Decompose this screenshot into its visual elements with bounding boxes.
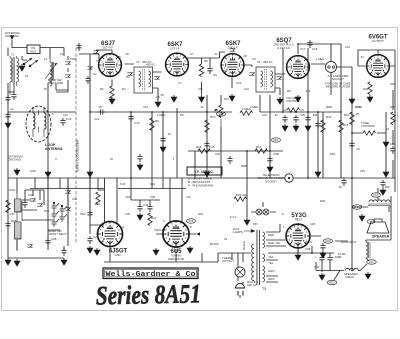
res right edge R25 — [391, 112, 395, 125]
tiny value labels 2 — [10, 45, 395, 256]
res volume R12 — [287, 108, 300, 112]
svg-text:C9: C9 — [213, 73, 217, 77]
svg-text:2: 2 — [381, 73, 383, 76]
svg-text:R18: R18 — [11, 219, 17, 223]
svg-text:P: P — [190, 225, 192, 229]
wire: 6SJ7 plate to T2 — [112, 64, 134, 86]
svg-text:.01: .01 — [385, 127, 389, 131]
svg-text:C34: C34 — [72, 197, 77, 201]
wire: chassis bus — [8, 177, 395, 179]
svg-text:C1: C1 — [60, 52, 64, 56]
gnd R6 — [199, 95, 205, 102]
svg-text:C10: C10 — [236, 81, 242, 85]
tube 6V6GT U5 — [366, 54, 390, 78]
svg-text:.01: .01 — [360, 55, 364, 59]
oval tag red — [327, 280, 337, 284]
cap C44 — [320, 243, 325, 251]
svg-text:C36: C36 — [125, 212, 130, 216]
svg-text:16 MF: 16 MF — [338, 252, 346, 256]
svg-text:5: 5 — [369, 61, 371, 64]
svg-text:2: 2 — [113, 72, 115, 75]
tube 6SQ7 U4 — [286, 55, 310, 79]
svg-text:R22: R22 — [95, 202, 100, 206]
svg-text:5: 5 — [224, 60, 226, 63]
AF amplifier socket — [325, 62, 350, 89]
osc trimmer stack A — [65, 190, 70, 193]
cap C15 — [204, 141, 209, 149]
svg-text:& 1ST A.F.: & 1ST A.F. — [277, 46, 291, 50]
wire: osc bottom links — [8, 190, 104, 258]
wire: heater run bottom — [104, 247, 218, 262]
svg-text:C40: C40 — [314, 265, 320, 269]
svg-text:47K: 47K — [186, 195, 191, 199]
cap right edge C50 — [390, 146, 395, 154]
oscillator coil T6 — [9, 188, 22, 251]
oval tag 6U5 — [187, 219, 196, 223]
wire: 6SK7 plate bus to 6SK7(2) — [187, 52, 226, 58]
svg-text:5: 5 — [166, 229, 168, 232]
svg-text:OSC.: OSC. — [114, 253, 121, 257]
svg-text:7: 7 — [179, 223, 181, 226]
svg-text:7: 7 — [301, 58, 303, 61]
svg-text:RED: RED — [329, 282, 334, 285]
wire: 6SK7(2) plate to T4 — [232, 65, 252, 88]
arrow 6U5 — [196, 232, 200, 235]
oval tag pin — [324, 239, 333, 243]
IF transformer T3 — [127, 60, 159, 93]
svg-text:C2: C2 — [93, 72, 97, 76]
svg-text:+: + — [315, 255, 317, 259]
tube 6SJ7 U1 — [98, 53, 122, 77]
gnd osc coil — [14, 259, 20, 266]
wire: long vertical feeds — [131, 48, 386, 271]
svg-text:OSC.: OSC. — [9, 188, 16, 192]
svg-text:RED-YEL: RED-YEL — [268, 241, 281, 245]
wire: grid line 6SJ7 — [79, 44, 99, 178]
wire: 6V6GT grid-screen box — [358, 50, 395, 192]
svg-text:250: 250 — [390, 82, 395, 86]
svg-text:4: 4 — [369, 68, 371, 71]
padder C30 — [27, 244, 32, 247]
band switch rear — [52, 202, 68, 227]
svg-text:INDICATOR: INDICATOR — [168, 257, 184, 261]
wire: antenna lead — [12, 40, 64, 59]
svg-text:.01: .01 — [274, 113, 278, 117]
electrolytics — [319, 255, 324, 263]
svg-text:1 MEG: 1 MEG — [157, 113, 165, 117]
svg-text:2: 2 — [301, 244, 303, 247]
cap C26 — [5, 221, 10, 229]
gnd 6SK7 — [155, 100, 161, 107]
osc trimmers — [30, 198, 35, 201]
svg-text:500K: 500K — [326, 105, 332, 109]
svg-text:R3: R3 — [126, 75, 130, 79]
res R11 — [240, 111, 253, 115]
svg-text:6: 6 — [52, 112, 54, 116]
svg-text:4: 4 — [100, 237, 102, 240]
tone control — [361, 121, 389, 147]
tube 6U5 U7 — [162, 220, 189, 247]
svg-text:6: 6 — [173, 55, 175, 58]
svg-text:C38: C38 — [310, 222, 315, 226]
svg-text:P - PHONOGRAPH: P - PHONOGRAPH — [188, 184, 213, 188]
svg-text:.006: .006 — [312, 113, 318, 117]
svg-text:T4: T4 — [257, 60, 261, 64]
svg-text:1 MEG: 1 MEG — [316, 57, 324, 61]
gnd 6SK7(2) — [229, 94, 235, 101]
svg-text:6: 6 — [228, 56, 230, 59]
wire: T1 primary drops — [8, 48, 14, 179]
wire: T4 to 6SQ7 — [275, 74, 285, 95]
svg-text:RED: RED — [268, 233, 274, 237]
svg-text:R21: R21 — [151, 216, 157, 220]
svg-text:1: 1 — [385, 68, 387, 71]
cap C27 + gnd — [61, 248, 66, 256]
svg-text:.05: .05 — [222, 69, 226, 73]
svg-text:2: 2 — [235, 72, 237, 75]
svg-text:8: 8 — [282, 212, 284, 216]
svg-text:R24: R24 — [363, 87, 368, 91]
tube 6SK7 U3 — [221, 53, 245, 77]
res R15 — [339, 120, 343, 133]
wire: osc tube feeds — [105, 178, 183, 223]
svg-text:C13: C13 — [134, 121, 140, 125]
switch S1a — [23, 58, 38, 67]
cap C4 input — [5, 95, 10, 103]
svg-text:T1: T1 — [11, 53, 15, 57]
svg-text:C2: C2 — [10, 107, 14, 111]
svg-text:C24: C24 — [262, 113, 267, 117]
wells-gardner box — [103, 268, 198, 279]
svg-text:PAD: PAD — [44, 209, 49, 213]
svg-text:8: 8 — [305, 62, 307, 65]
cap C21 — [349, 141, 354, 149]
svg-text:7: 7 — [113, 56, 115, 59]
svg-text:R6: R6 — [204, 59, 208, 63]
electrolytic C29 — [87, 236, 92, 244]
wire: speaker leads — [311, 188, 391, 241]
svg-text:HUM NEUT.: HUM NEUT. — [341, 240, 357, 244]
svg-text:R10: R10 — [210, 115, 216, 119]
oval tag pin2 — [367, 260, 377, 264]
svg-text:5: 5 — [168, 60, 170, 63]
svg-text:5: 5 — [289, 231, 291, 234]
svg-text:1ST R.F.: 1ST R.F. — [102, 46, 113, 50]
res R20 — [234, 197, 247, 201]
svg-text:6U5: 6U5 — [189, 220, 194, 223]
cap C22 — [267, 156, 272, 164]
wire: bottom b+ bus — [268, 246, 367, 280]
svg-text:ANT.: ANT. — [30, 49, 36, 53]
wire: avc bus — [188, 151, 283, 218]
wire: 6SQ7 plate to AF socket — [311, 44, 331, 95]
svg-text:T3: T3 — [136, 60, 140, 64]
svg-text:C50: C50 — [390, 142, 395, 146]
svg-text:LAMPS: LAMPS — [233, 230, 243, 234]
speaker field winding — [366, 242, 370, 258]
svg-text:7: 7 — [235, 56, 237, 59]
gang condenser dashed line — [75, 48, 77, 243]
svg-text:.02: .02 — [338, 185, 342, 189]
svg-text:.05: .05 — [160, 93, 164, 97]
avc resistor R17 — [255, 149, 268, 153]
wire: left mid horizontals — [8, 90, 68, 104]
res R18 — [6, 200, 10, 213]
svg-text:8: 8 — [240, 60, 242, 63]
wire: interstage r-c — [202, 58, 211, 95]
osc res R22 — [96, 192, 100, 205]
svg-text:500: 500 — [385, 185, 390, 189]
svg-text:OSC: OSC — [80, 212, 86, 216]
svg-text:R8: R8 — [287, 89, 291, 93]
wire: left osc verticals — [8, 178, 98, 258]
wire: AF socket to 6V6GT grid — [337, 67, 353, 95]
gnd 6U5 — [153, 248, 159, 255]
svg-text:R1: R1 — [122, 87, 126, 91]
svg-text:R16: R16 — [196, 145, 202, 149]
svg-text:3: 3 — [374, 73, 376, 76]
svg-text:GND: GND — [30, 169, 36, 173]
svg-text:RECT. SHD: RECT. SHD — [48, 81, 63, 85]
svg-text:7: 7 — [180, 55, 182, 58]
svg-text:G: G — [122, 225, 124, 229]
svg-text:2: 2 — [113, 242, 115, 245]
svg-text:VC: VC — [369, 222, 373, 224]
interstage resistor R6 — [199, 64, 203, 77]
svg-text:R13: R13 — [326, 115, 332, 119]
svg-text:BLACK: BLACK — [242, 240, 246, 250]
cap C52 — [380, 180, 385, 188]
cap C28 — [45, 238, 50, 246]
svg-text:T5: T5 — [262, 287, 266, 291]
svg-text:FIELD: FIELD — [346, 275, 354, 279]
svg-text:R17: R17 — [256, 145, 262, 149]
svg-text:C10: C10 — [244, 87, 249, 91]
svg-text:BLK: BLK — [369, 261, 374, 264]
svg-text:C39: C39 — [305, 247, 311, 251]
cap C2a — [5, 112, 10, 120]
power plug — [236, 284, 245, 296]
svg-text:C25: C25 — [300, 113, 305, 117]
svg-text:B 14: B 14 — [355, 206, 361, 209]
svg-text:.002: .002 — [125, 195, 131, 199]
IF transformer T4 — [249, 60, 281, 92]
svg-text:R11: R11 — [224, 97, 229, 101]
svg-text:20: 20 — [110, 157, 113, 161]
svg-text:C35: C35 — [150, 195, 155, 199]
svg-text:RECT.: RECT. — [295, 217, 304, 221]
svg-text:R15: R15 — [343, 123, 349, 127]
trimmer C8 tube3 — [230, 48, 235, 51]
svg-text:GRN: GRN — [268, 277, 274, 281]
svg-text:F: F — [283, 225, 285, 229]
res R9 — [150, 118, 154, 131]
svg-text:SOCKET: SOCKET — [265, 179, 277, 183]
svg-text:1: 1 — [240, 67, 242, 70]
grid cap C4 — [76, 43, 81, 51]
svg-text:1: 1 — [305, 69, 307, 72]
svg-text:GRN: GRN — [325, 240, 331, 243]
svg-text:2: 2 — [180, 71, 182, 74]
svg-text:Series 8A51: Series 8A51 — [96, 278, 202, 310]
svg-text:C29: C29 — [93, 235, 99, 239]
oval tag volume — [217, 112, 226, 116]
wire: transformer primary leads — [238, 253, 243, 298]
svg-text:8: 8 — [117, 60, 119, 63]
svg-text:.05: .05 — [356, 147, 360, 151]
cap C14 hang — [160, 136, 165, 144]
svg-text:4: 4 — [289, 238, 291, 241]
wire: 6SJ7 top cap — [96, 50, 112, 55]
svg-text:R2: R2 — [100, 87, 104, 91]
svg-text:C12: C12 — [63, 113, 68, 117]
IF freq box — [187, 167, 222, 188]
svg-text:ANTENNA: ANTENNA — [45, 147, 63, 151]
svg-text:R20 220: R20 220 — [236, 193, 247, 197]
svg-text:1: 1 — [118, 237, 120, 240]
wire: T2 secondary to 6SK7 — [153, 72, 162, 100]
gnd speaker return — [359, 214, 365, 221]
wire: hv secondary to 5Y3G — [266, 224, 298, 253]
svg-text:4: 4 — [166, 237, 168, 240]
svg-text:8: 8 — [185, 229, 187, 232]
svg-text:RECORD PLAYER: RECORD PLAYER — [326, 85, 351, 89]
svg-text:DET: DET — [274, 139, 279, 142]
power transformer T5 — [242, 230, 281, 291]
svg-text:6: 6 — [294, 58, 296, 61]
svg-text:3: 3 — [228, 72, 230, 75]
rf coil T2a — [44, 57, 57, 86]
svg-text:8: 8 — [306, 231, 308, 234]
svg-text:.05: .05 — [125, 52, 129, 56]
svg-text:R19: R19 — [198, 212, 203, 216]
svg-text:5: 5 — [289, 62, 291, 65]
svg-text:3: 3 — [171, 243, 173, 246]
output transformer — [352, 193, 390, 209]
res R13 — [321, 120, 325, 133]
wire: osc grid row — [131, 178, 160, 205]
wire: 6SQ7 top cap riser — [298, 44, 341, 178]
svg-text:GROUND: GROUND — [8, 158, 21, 162]
cathode 6V6 — [368, 82, 372, 95]
wire: right edge components — [366, 90, 393, 261]
svg-text:SW. S2: SW. S2 — [247, 283, 257, 287]
svg-text:3: 3 — [106, 72, 108, 75]
svg-text:R15: R15 — [344, 113, 349, 117]
svg-text:FRONT SECT.: FRONT SECT. — [48, 232, 67, 236]
svg-text:450 V: 450 V — [305, 240, 312, 244]
svg-text:6.3V: 6.3V — [120, 182, 126, 186]
tube 6J5GT U6 — [97, 221, 123, 247]
svg-text:C3: C3 — [96, 59, 100, 63]
svg-text:R9: R9 — [155, 119, 159, 123]
res R10 — [205, 120, 209, 133]
svg-text:C31: C31 — [150, 182, 155, 186]
wire: osc inner links — [22, 190, 104, 225]
svg-text:470K: 470K — [273, 152, 279, 156]
cap C2b — [85, 76, 90, 84]
svg-text:C28: C28 — [51, 237, 57, 241]
svg-text:GANG CONDENSER: GANG CONDENSER — [76, 139, 80, 172]
svg-text:1ST I.F.: 1ST I.F. — [170, 47, 180, 51]
thermal breaker — [222, 256, 245, 277]
wire: filament leads — [266, 260, 278, 282]
svg-text:8: 8 — [184, 60, 186, 63]
trimmer C1 — [65, 61, 70, 64]
cap top 6SQ7 — [307, 40, 312, 48]
svg-text:C51: C51 — [360, 169, 365, 173]
svg-text:.05: .05 — [355, 112, 359, 116]
wire: heater bus left — [218, 253, 251, 260]
svg-text:R25: R25 — [390, 105, 395, 109]
svg-text:3: 3 — [173, 71, 175, 74]
svg-text:4: 4 — [289, 69, 291, 72]
res R21 — [148, 213, 152, 226]
svg-text:C5: C5 — [117, 55, 121, 59]
svg-text:GRN: GRN — [268, 269, 274, 273]
svg-text:5: 5 — [100, 229, 102, 232]
svg-text:7: 7 — [301, 226, 303, 229]
gnd C2a — [5, 121, 11, 128]
svg-text:3: 3 — [294, 74, 296, 77]
svg-text:470K: 470K — [356, 105, 362, 109]
ground T1 — [19, 64, 25, 71]
svg-text:5: 5 — [101, 60, 103, 63]
svg-text:OUT: OUT — [373, 194, 379, 197]
svg-text:CONTROL: CONTROL — [361, 124, 376, 128]
avc resistor R16 — [198, 149, 211, 153]
wire: field coil bus — [297, 248, 299, 253]
osc cap C32 — [87, 210, 92, 218]
wire: lower ground bus — [30, 178, 186, 189]
svg-text:455 KC: 455 KC — [146, 63, 155, 67]
cap C16 + gnd — [137, 154, 142, 162]
svg-text:6: 6 — [171, 223, 173, 226]
misc grounds on chassis bus — [45, 170, 51, 177]
svg-text:.05: .05 — [167, 132, 171, 136]
wire: dial lamp leads — [251, 202, 276, 212]
svg-text:C11: C11 — [94, 117, 99, 121]
svg-text:4: 4 — [168, 67, 170, 70]
svg-text:OUTPUT: OUTPUT — [372, 39, 384, 43]
gnd 6SQ7 — [277, 97, 283, 104]
tube 6SK7 U2 — [165, 53, 189, 77]
gnd C14 — [160, 145, 166, 152]
svg-text:2: 2 — [301, 74, 303, 77]
gnd field bus — [365, 272, 371, 279]
tube pin numbers — [100, 55, 387, 246]
svg-text:C13: C13 — [143, 105, 148, 109]
svg-text:R26: R26 — [320, 199, 325, 203]
cap C11 on volume bus — [98, 109, 106, 114]
svg-text:CUTOUT: CUTOUT — [222, 259, 234, 263]
caps on right bus — [282, 115, 287, 123]
interstage cap C9 — [207, 66, 212, 74]
trim C2c — [87, 66, 92, 69]
tube 5Y3G U8 — [286, 224, 311, 249]
svg-text:.1: .1 — [172, 157, 175, 161]
wire: right mid bus — [260, 112, 386, 133]
svg-text:7: 7 — [381, 57, 383, 60]
wire: rf coil links — [22, 56, 68, 178]
svg-text:7: 7 — [113, 224, 115, 227]
cap C12 — [60, 118, 65, 126]
trimmer C2 — [65, 74, 70, 77]
svg-text:TARGET: TARGET — [154, 228, 166, 232]
svg-text:C19: C19 — [345, 45, 350, 49]
wire: 6U5 target lead — [156, 233, 196, 235]
loop antenna — [26, 106, 63, 151]
